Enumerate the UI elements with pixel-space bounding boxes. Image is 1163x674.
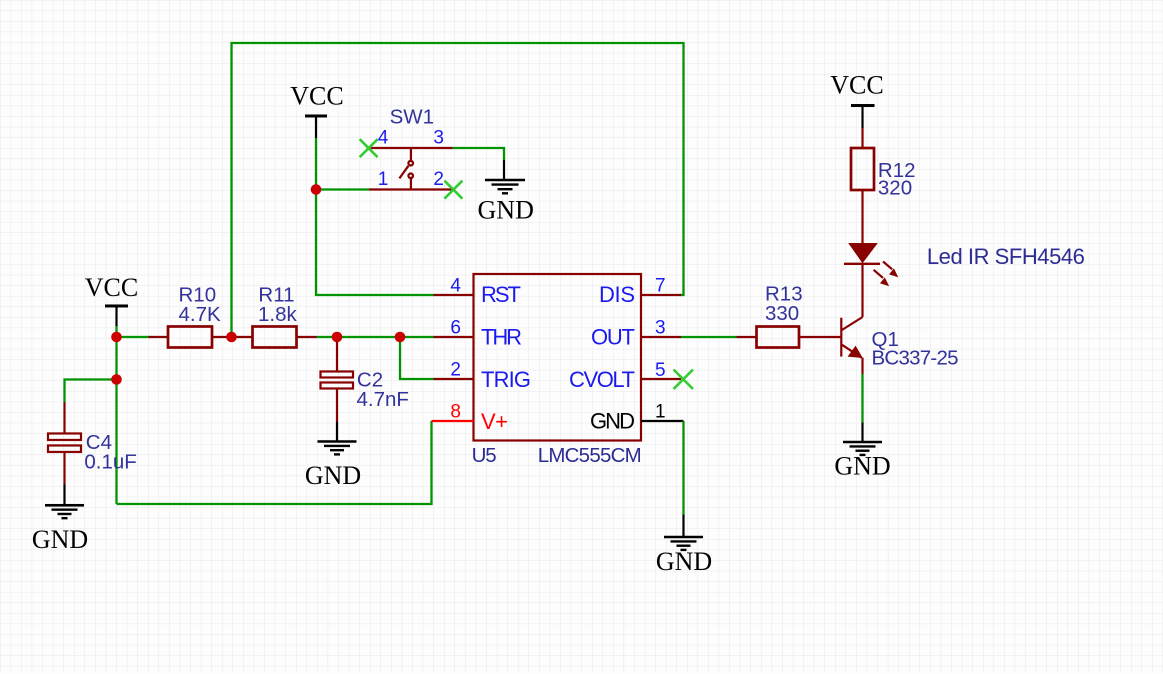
junction at VCC rail / R10 — [111, 332, 122, 343]
svg-text:5: 5 — [655, 360, 666, 381]
svg-text:8: 8 — [450, 401, 461, 422]
svg-text:GND: GND — [478, 195, 534, 224]
ground under C4 — [32, 484, 88, 554]
svg-text:2: 2 — [433, 169, 444, 190]
svg-text:V+: V+ — [481, 409, 508, 434]
no-connect X on pin 5 — [673, 370, 693, 390]
pin 8 V+ — [431, 401, 508, 434]
wire: OUT pin 3 to R13 — [681, 336, 737, 338]
svg-text:GND: GND — [834, 452, 890, 481]
wire: SW1 pin1 feed — [316, 188, 369, 190]
svg-text:320: 320 — [878, 177, 912, 200]
pin 1 GND — [590, 401, 684, 433]
no-connect X on SW1 pin 4 — [360, 139, 378, 157]
svg-text:SW1: SW1 — [390, 105, 434, 128]
wire: SW1 pin 3 to ground — [453, 148, 504, 160]
IC U5 LMC555CM box — [473, 274, 641, 441]
svg-text:OUT: OUT — [591, 325, 635, 350]
capacitor C2 — [320, 337, 408, 422]
svg-text:4: 4 — [450, 275, 461, 296]
resistor R11 — [231, 283, 316, 347]
no-connect X on SW1 pin 2 — [444, 181, 462, 199]
wire: emitter to ground — [861, 358, 863, 374]
svg-text:GND: GND — [305, 461, 361, 490]
junction rail / C2 — [332, 332, 343, 343]
junction at VCC rail / C4 — [111, 374, 122, 385]
pin 5 CVOLT — [569, 360, 681, 392]
svg-text:0.1uF: 0.1uF — [84, 450, 136, 473]
svg-text:Led IR SFH4546: Led IR SFH4546 — [927, 244, 1085, 269]
svg-text:U5: U5 — [472, 444, 497, 467]
wire: pin 1 to ground — [682, 421, 684, 515]
svg-text:TRIG: TRIG — [481, 367, 531, 392]
svg-text:7: 7 — [655, 275, 666, 296]
pin 3 OUT — [591, 318, 681, 350]
svg-text:VCC: VCC — [290, 81, 343, 110]
resistor R10 — [148, 283, 231, 347]
wire: VCC rail to C4 — [64, 379, 116, 402]
power VCC right — [830, 71, 883, 129]
pin 4 RST — [434, 275, 522, 307]
pin 6 THR — [433, 318, 522, 350]
svg-text:6: 6 — [450, 318, 461, 339]
ground for SW1 — [478, 160, 534, 224]
svg-text:1.8k: 1.8k — [258, 303, 297, 326]
svg-text:BC337-25: BC337-25 — [871, 347, 958, 370]
svg-text:VCC: VCC — [830, 71, 883, 100]
pin 7 DIS — [599, 275, 681, 307]
svg-text:CVOLT: CVOLT — [569, 367, 635, 392]
wire: main rail to R10 — [117, 336, 150, 338]
junction VCC / SW1 pin 1 — [311, 184, 322, 195]
svg-text:LMC555CM: LMC555CM — [538, 444, 642, 467]
switch SW1 — [369, 105, 453, 190]
wire: top long net from R10/R11 junction to DIS pin 7 — [232, 43, 684, 337]
svg-text:THR: THR — [481, 324, 522, 349]
svg-text:1: 1 — [655, 401, 666, 422]
svg-text:3: 3 — [433, 128, 444, 149]
pin 2 TRIG — [433, 360, 531, 392]
ground under C2 — [305, 422, 361, 490]
wire: R11 to THR pin 6 — [317, 336, 434, 338]
svg-text:2: 2 — [450, 360, 461, 381]
junction R10/R11/top net — [226, 332, 237, 343]
svg-text:330: 330 — [765, 302, 799, 325]
junction rail / TRIG branch — [395, 332, 406, 343]
svg-text:RST: RST — [481, 282, 521, 307]
power VCC left — [85, 273, 138, 326]
transistor Q1 — [841, 317, 958, 370]
power VCC for SW1 — [290, 81, 343, 138]
svg-text:GND: GND — [656, 547, 712, 576]
ground under Q1 — [834, 423, 890, 481]
svg-text:3: 3 — [655, 318, 666, 339]
resistor R13 — [736, 283, 842, 348]
wire: VCC left vertical rail — [115, 326, 117, 504]
capacitor C4 — [48, 402, 137, 485]
svg-text:GND: GND — [590, 409, 635, 434]
svg-text:4: 4 — [378, 128, 389, 149]
svg-text:VCC: VCC — [85, 273, 138, 302]
svg-text:4.7nF: 4.7nF — [356, 388, 408, 411]
svg-text:4.7K: 4.7K — [179, 303, 221, 326]
ground under pin 1 — [656, 515, 712, 577]
svg-text:1: 1 — [378, 169, 389, 190]
wire: VCC to SW1 pin1 and down to RST pin 4 — [316, 138, 434, 295]
wire: branch down to TRIG pin 2 — [400, 337, 434, 379]
svg-text:GND: GND — [32, 525, 88, 554]
svg-text:DIS: DIS — [599, 282, 635, 307]
wire: bottom net from VCC rail to V+ pin 8 — [116, 421, 431, 504]
resistor R12 — [851, 128, 916, 244]
LED Led IR SFH4546 — [844, 243, 1085, 317]
